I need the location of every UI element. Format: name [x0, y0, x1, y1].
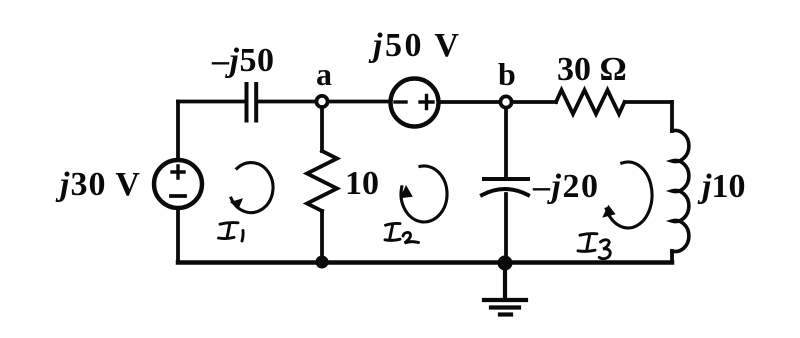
resistor R 30ohm [556, 90, 625, 114]
wire node a down to resistor R10 [320, 107, 324, 151]
svg-text:j10: j10 [697, 168, 745, 205]
wire left vertical below source V1 [176, 208, 180, 262]
label I3 (handwritten) [578, 234, 610, 259]
wire node b down to capacitor C2 [504, 108, 508, 179]
voltage source V2 j50 V [391, 79, 439, 127]
svg-text:30 Ω: 30 Ω [557, 51, 627, 88]
node b [500, 96, 511, 107]
wire capacitor C2 to bottom [504, 194, 508, 262]
wire capacitor to node a [258, 100, 315, 104]
voltage source V1 j30 V [154, 160, 202, 208]
svg-text:–j50: –j50 [211, 42, 274, 79]
mesh current loop I2 arrow [401, 166, 447, 222]
wire left vertical (top corner down to source V1 top) [176, 102, 180, 161]
mesh current loop I1 arrow [231, 163, 273, 213]
junction dot at ground node [498, 256, 513, 271]
label I2 (handwritten) [385, 223, 419, 243]
svg-text:–j20: –j20 [532, 168, 599, 205]
ground symbol [484, 263, 526, 315]
wire right vertical below inductor [670, 251, 674, 262]
V1 plus sign [172, 166, 184, 178]
wire resistor R10 to bottom [320, 211, 324, 262]
V2 minus sign [395, 100, 406, 103]
capacitor C1 -j50 [247, 84, 257, 121]
V1 minus sign [171, 194, 185, 198]
svg-text:j50 V: j50 V [368, 27, 461, 64]
wire right vertical above inductor [670, 102, 674, 131]
capacitor C2 -j20 [482, 179, 528, 195]
node a [316, 96, 327, 107]
svg-text:b: b [498, 56, 516, 92]
svg-text:10: 10 [345, 165, 379, 202]
wire top-left horizontal (source top to capacitor) [178, 100, 245, 104]
wire node a to source V2 [329, 100, 389, 104]
junction dot at R10 bottom [316, 256, 329, 269]
wire source V2 to node b [440, 100, 500, 104]
wire resistor to top-right corner [625, 100, 672, 104]
svg-text:a: a [316, 56, 332, 92]
label I1 (handwritten) [219, 223, 244, 241]
resistor R 10 (vertical) [307, 151, 337, 211]
inductor L j10 [672, 131, 689, 252]
mesh current loop I3 arrow [606, 162, 652, 228]
wire node b to resistor R30 [512, 100, 556, 104]
V2 plus sign [420, 96, 433, 109]
wire bottom horizontal [178, 260, 672, 265]
svg-text:j30 V: j30 V [55, 166, 141, 203]
